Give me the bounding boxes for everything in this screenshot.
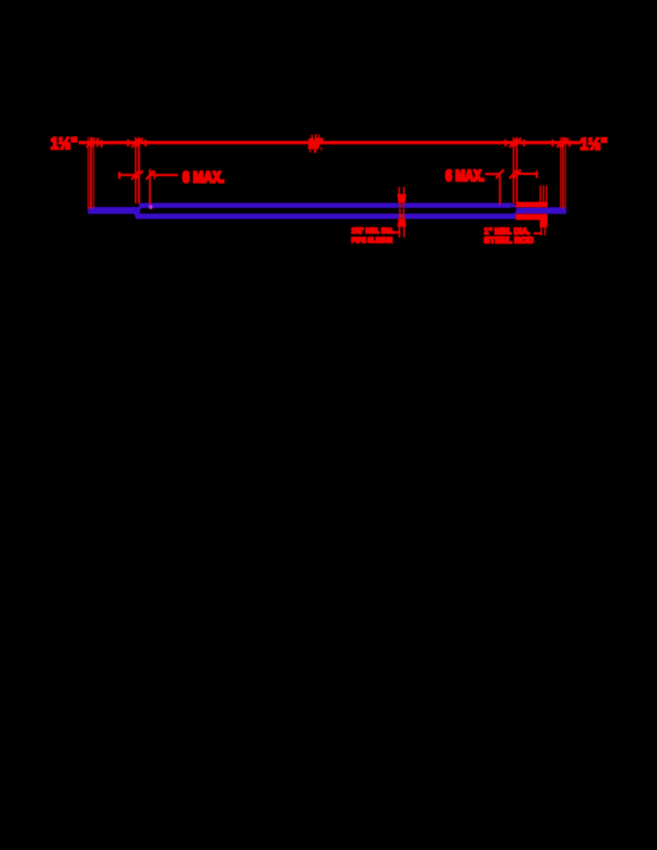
tube left break curve bottom: [134, 214, 141, 219]
tube OD dimension D crossing tint top: [399, 203, 405, 207]
tube OD dimension D up arrow: [397, 218, 406, 227]
right 6MAX tail terminator: [536, 171, 538, 178]
left 6MAX mini stub: [154, 171, 156, 179]
rod dimension E red block below rod: [516, 214, 548, 220]
right 6MAX leader from text to C': [485, 173, 501, 175]
left 6MAX slash tick at C: [146, 171, 154, 180]
svg-text:1½": 1½": [51, 134, 78, 153]
witness line C: [149, 169, 151, 205]
right 6MAX tail line: [517, 173, 538, 175]
rod dimension E lower extension lines: [541, 228, 543, 236]
left 6MAX dimension tail terminator: [118, 172, 120, 179]
tick slashes at E: [506, 138, 525, 148]
svg-text:PIPE SLEEVE: PIPE SLEEVE: [352, 236, 393, 245]
tube top edge: [139, 203, 511, 208]
tick slashes at A: [86, 138, 101, 148]
rod left segment: [88, 207, 140, 214]
extension line triple A: [88, 137, 89, 209]
left 6MAX slash ticks at B: [131, 171, 143, 180]
svg-text:1" MIN. DIA.: 1" MIN. DIA.: [484, 227, 530, 236]
rod right segment: [517, 207, 567, 214]
right 6MAX slash tick at C': [496, 170, 504, 179]
svg-text:1½": 1½": [580, 135, 608, 154]
leader from bottom-right note to dimension E: [534, 232, 543, 234]
tube right break curve top: [511, 203, 517, 207]
top dimension line: [79, 141, 582, 144]
centerline symbol ascender stubs: [311, 135, 313, 141]
tube OD dimension D lower extension lines: [399, 227, 401, 238]
witness line C': [499, 172, 501, 205]
rod dimension E red block above rod: [516, 202, 548, 207]
tube OD dimension D upper extension lines: [398, 187, 400, 195]
tube bottom edge: [136, 214, 517, 219]
right 6MAX slash ticks at E: [509, 170, 521, 179]
tick slashes at F: [553, 138, 570, 148]
extension line pair B: [135, 137, 137, 204]
extension line triple F: [560, 137, 561, 208]
tube OD dimension D down arrow: [397, 194, 406, 203]
svg-text:24": 24": [309, 136, 324, 151]
rod dimension E upper extension lines: [540, 186, 542, 203]
left 6MAX leader line from C to text: [150, 174, 178, 176]
magenta overlap dot at C on tube: [149, 205, 153, 209]
tube OD dimension D crossing tint bottom: [399, 214, 405, 219]
extension line pair E: [513, 137, 515, 204]
svg-text:6 MAX.: 6 MAX.: [183, 170, 225, 187]
svg-text:1¼" MIN. DIA.: 1¼" MIN. DIA.: [352, 226, 395, 235]
tube OD dimension D lines through tube interior: [399, 209, 401, 214]
rod dimension E column below: [540, 220, 548, 228]
centerline symbol descenders: [309, 147, 311, 153]
leader from bottom-center note to dimension D: [388, 231, 401, 234]
left 6MAX dimension tail line: [118, 174, 135, 176]
svg-text:STEEL ROD: STEEL ROD: [484, 236, 534, 245]
tick slashes at B: [128, 138, 146, 148]
svg-text:6 MAX.: 6 MAX.: [446, 168, 485, 185]
tube left break curve top: [139, 204, 147, 211]
tube right break curve bottom: [510, 210, 517, 219]
